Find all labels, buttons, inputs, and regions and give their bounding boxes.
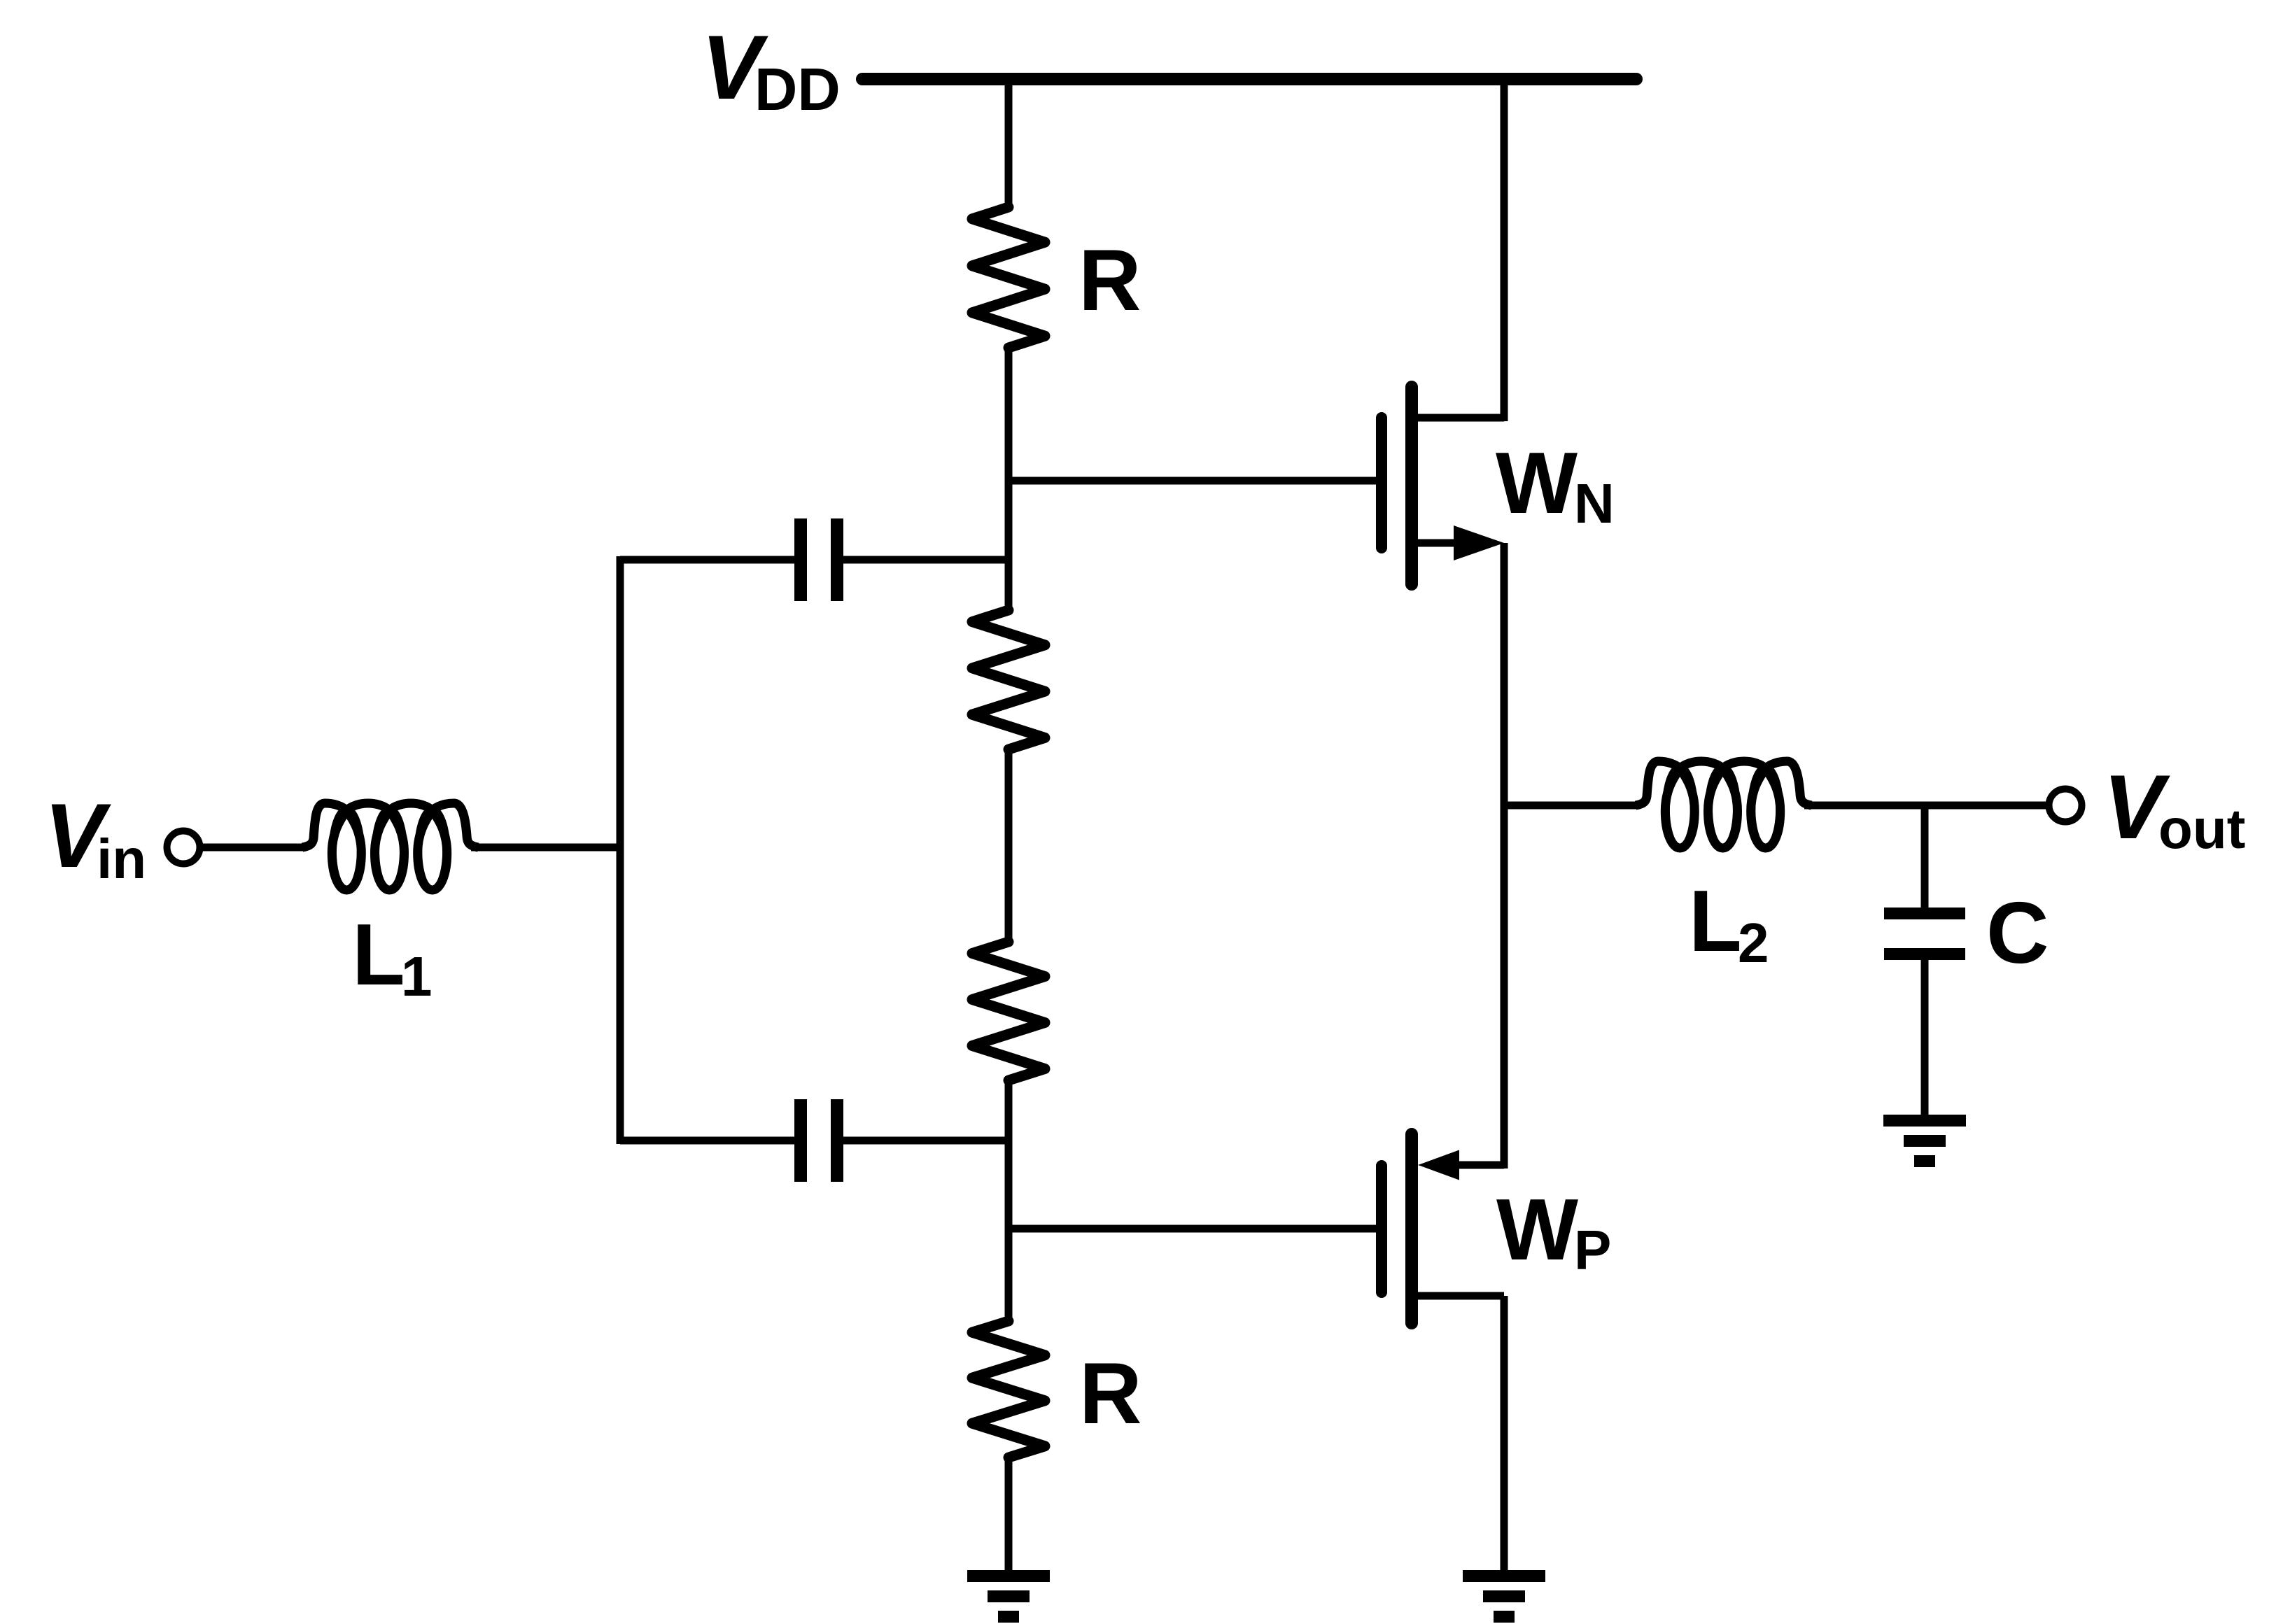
resistor R4 — [972, 1321, 1045, 1457]
inductor L2 — [1636, 761, 1811, 848]
svg-text:2: 2 — [1738, 912, 1769, 974]
wire Vin to L1 — [200, 844, 305, 852]
wire cap C1 left — [620, 556, 796, 564]
svg-text:W: W — [1496, 435, 1578, 532]
svg-text:L: L — [352, 907, 405, 1003]
wire L2 to Vout — [1804, 802, 2046, 810]
wire WN source down to output — [1501, 543, 1508, 1168]
svg-text:1: 1 — [401, 945, 433, 1008]
wire WP gate lead — [1009, 1225, 1377, 1233]
svg-text:in: in — [97, 828, 146, 890]
VDD rail — [862, 73, 1636, 85]
wire cap C2 left — [620, 1137, 796, 1145]
resistor R3 — [972, 942, 1045, 1080]
node Vin terminal — [167, 831, 200, 864]
wire L1 to left vertical — [471, 844, 620, 852]
capacitor C2 plate left — [794, 1099, 807, 1182]
svg-text:C: C — [1986, 885, 2049, 982]
wire WN gate lead — [1009, 477, 1377, 485]
transistor WP channel bar — [1405, 1134, 1418, 1323]
capacitor C top plate — [1884, 908, 1965, 919]
wire R2 to R3 — [1005, 748, 1013, 943]
wire C branch down — [1921, 805, 1929, 909]
inductor L2 loop ellipses — [1666, 768, 1694, 849]
arrow WP source — [1418, 1150, 1459, 1180]
svg-text:DD: DD — [754, 57, 841, 123]
transistor WN gate bar — [1376, 418, 1387, 548]
resistor R2 — [972, 610, 1045, 749]
capacitor C1 plate left — [794, 518, 807, 601]
wire WP drain to ground — [1501, 1296, 1508, 1572]
transistor WN channel bar — [1405, 387, 1418, 584]
wire WN drain lead — [1412, 414, 1504, 422]
wire WP drain lead — [1412, 1292, 1504, 1300]
node Vout terminal — [2049, 789, 2082, 822]
wire R1 to bias node — [1005, 346, 1013, 612]
capacitor C bottom plate — [1884, 948, 1965, 960]
inductor L1 — [302, 803, 478, 890]
ground G3 — [1883, 1115, 1966, 1127]
svg-text:W: W — [1496, 1182, 1578, 1278]
svg-text:R: R — [1079, 232, 1141, 329]
svg-text:L: L — [1689, 873, 1742, 970]
ground G2 — [1463, 1570, 1545, 1582]
ground G1 — [967, 1570, 1050, 1582]
capacitor C2 plate right — [831, 1099, 843, 1182]
svg-text:out: out — [2158, 798, 2245, 860]
wire C to ground — [1921, 959, 1929, 1116]
wire WN drain to VDD — [1501, 79, 1508, 421]
capacitor C1 plate right — [831, 518, 843, 601]
resistor R1 — [972, 207, 1045, 348]
wire output to L2 — [1504, 802, 1638, 810]
svg-text:N: N — [1574, 472, 1615, 535]
wire R4 to ground — [1005, 1456, 1013, 1572]
wire VDD to R1 — [1005, 79, 1013, 209]
wire cap C2 right — [842, 1137, 1009, 1145]
svg-text:P: P — [1574, 1219, 1611, 1281]
svg-text:R: R — [1079, 1346, 1142, 1442]
wire left vertical — [617, 556, 624, 1144]
inductor L1 loop ellipses — [332, 810, 360, 891]
arrow WN source — [1454, 525, 1504, 560]
wire WP source lead — [1442, 1161, 1504, 1169]
wire cap C1 right — [842, 556, 1009, 564]
transistor WP gate bar — [1376, 1166, 1387, 1292]
wire WN source lead — [1412, 539, 1477, 547]
wire R3 down to R4 — [1005, 1079, 1013, 1322]
